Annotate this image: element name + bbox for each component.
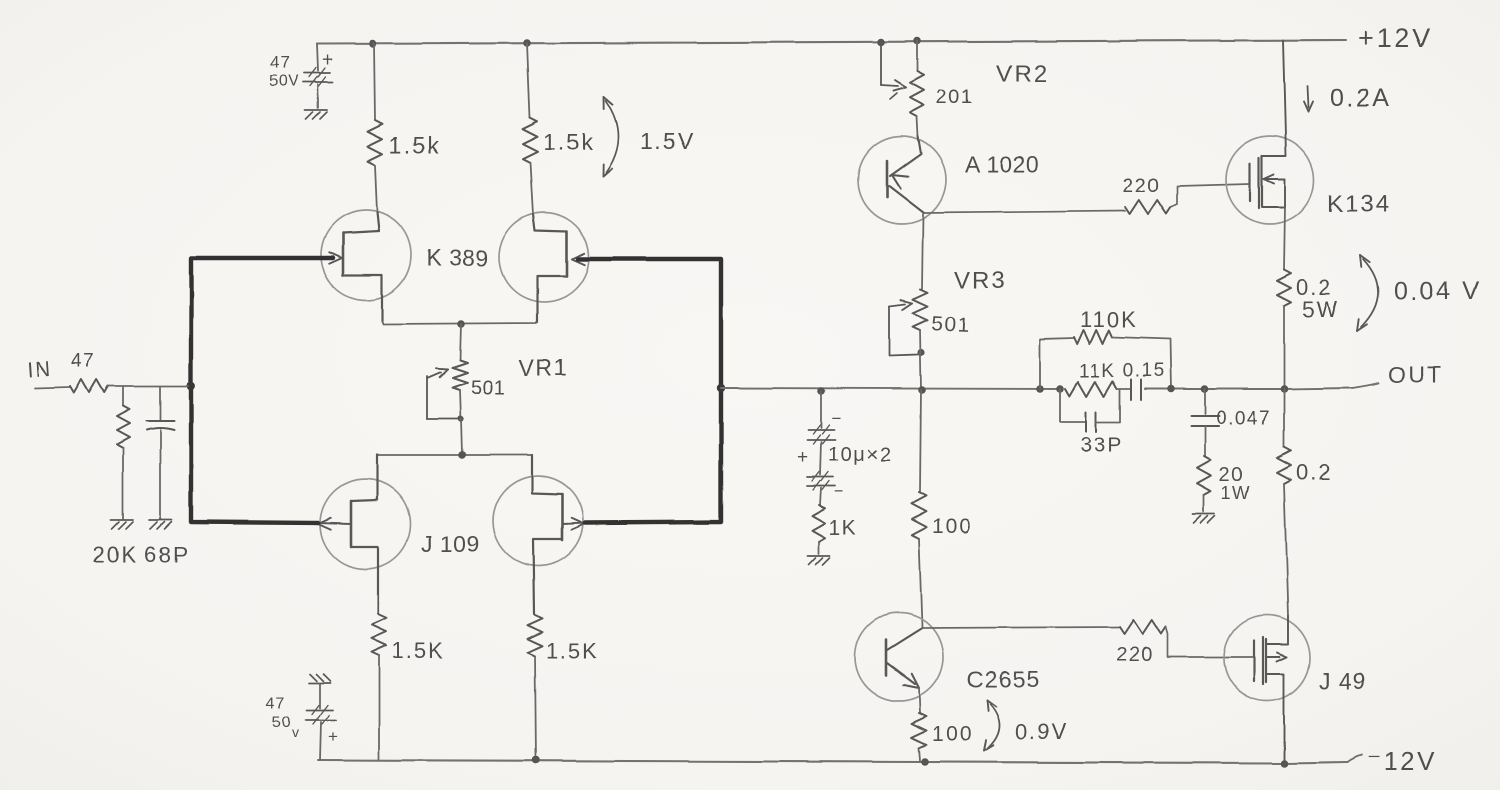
potentiometer VR1 wiper — [427, 368, 458, 419]
wire top-left cap stem — [317, 44, 318, 71]
label 110K — [1080, 307, 1138, 332]
junction dot (rail / right 1.5k) — [523, 39, 531, 47]
junction dot (110K left / line) — [1036, 385, 1044, 393]
svg-text:110K: 110K — [1080, 307, 1138, 332]
svg-text:100: 100 — [932, 723, 973, 746]
resistor 220 (K134 gate) — [1125, 200, 1171, 214]
resistor 110K (feedback bridge) — [1040, 330, 1171, 389]
label 1.5K (bottom left) — [392, 638, 445, 663]
wire thick left gate loop — [191, 258, 333, 523]
svg-text:VR1: VR1 — [519, 355, 568, 381]
transistor C2655 base bar — [885, 640, 888, 675]
svg-text:1.5K: 1.5K — [546, 638, 599, 663]
svg-text:A 1020: A 1020 — [965, 151, 1040, 177]
transistor K389 right JFET (circle) — [499, 212, 589, 302]
label VR3 — [954, 267, 1007, 294]
annotation arrow 0.2A — [1304, 86, 1313, 112]
transistor K134 (circle) — [1226, 136, 1314, 224]
transistor K134 channel bar — [1259, 156, 1262, 208]
junction dot (rail / left 1.5k) — [369, 40, 377, 48]
resistor 1.5k (K389 left drain) — [368, 44, 383, 212]
label + (top-left cap polarity) — [322, 50, 333, 71]
potentiometer VR2 wiper — [881, 42, 906, 99]
svg-text:−: − — [831, 409, 841, 428]
svg-text:47: 47 — [266, 695, 286, 712]
resistor 0.2 5W (K134 source) — [1277, 270, 1291, 389]
svg-text:47: 47 — [270, 53, 291, 72]
wire output line (right section) — [1145, 383, 1378, 389]
junction dot (33p left / line) — [1056, 385, 1064, 393]
wire +12V top rail — [317, 40, 1346, 44]
svg-text:+: + — [322, 50, 333, 71]
svg-text:11K 0.15: 11K 0.15 — [1079, 361, 1166, 382]
svg-text:⁻12V: ⁻12V — [1367, 746, 1437, 776]
transistor K134 body arrow — [1264, 175, 1285, 184]
transistor K389 left JFET (circle) — [321, 210, 411, 300]
svg-text:1K: 1K — [829, 517, 858, 540]
svg-text:47: 47 — [71, 351, 95, 372]
ground (1K) — [808, 556, 830, 565]
ground (zobel) — [1193, 514, 1215, 523]
label J109 — [421, 531, 480, 557]
svg-text:50V: 50V — [269, 73, 299, 90]
wire 11K to 0.15 — [1117, 388, 1130, 390]
svg-text:50: 50 — [272, 714, 292, 731]
transistor J109 right gate arrow — [562, 518, 585, 529]
label 501 (VR1) — [471, 377, 506, 399]
junction dot (VR1 wiper) — [458, 416, 464, 422]
label 201 (VR2) — [936, 86, 974, 108]
transistor J109 left gate arrow — [318, 518, 351, 529]
svg-text:33P: 33P — [1080, 434, 1123, 457]
resistor 0.2 (J49 source) — [1277, 389, 1291, 616]
svg-text:5W: 5W — [1302, 297, 1339, 322]
wire C2655 emitter to 100 — [919, 688, 920, 713]
wire A1020 collector to 220 — [924, 211, 1125, 213]
transistor J109 right JFET (circle) — [493, 476, 583, 566]
transistor K134 source lead — [1262, 179, 1285, 270]
transistor K134 drain lead — [1262, 40, 1286, 156]
svg-text:68P: 68P — [144, 542, 189, 567]
svg-text:1.5V: 1.5V — [640, 128, 695, 154]
transistor A1020 emitter — [890, 136, 921, 189]
svg-text:501: 501 — [931, 312, 972, 337]
annotation arc 0.9V — [984, 700, 1000, 751]
svg-text:220: 220 — [1116, 644, 1154, 666]
label 1.5k (right) — [543, 129, 594, 155]
wire VR1 top stem — [460, 324, 461, 360]
resistor 1.5K (J109 right drain) — [528, 615, 543, 760]
label 220 (bottom) — [1116, 644, 1154, 666]
svg-text:IN: IN — [27, 357, 54, 382]
svg-text:−: − — [834, 482, 844, 501]
label 501 (VR3) — [931, 312, 972, 337]
junction dot (zobel / line) — [1201, 385, 1209, 393]
label 10ux2 — [828, 444, 892, 466]
wire input lead — [35, 387, 70, 388]
label 1.5V — [640, 128, 695, 154]
svg-text:+: + — [328, 727, 338, 746]
capacitor 47/50V (top-left electrolytic) — [303, 68, 333, 108]
transistor K389 right JFET (symbol) — [533, 214, 567, 322]
wire VR1 bottom stem — [460, 390, 461, 419]
svg-text:1.5k: 1.5k — [389, 132, 440, 158]
wire J109 source bus — [377, 454, 532, 456]
transistor K389 right gate arrow — [572, 253, 585, 264]
transistor C2655 collector — [887, 628, 922, 650]
svg-text:v: v — [292, 724, 299, 740]
svg-text:220: 220 — [1122, 175, 1160, 197]
potentiometer VR2 201 (element) — [910, 41, 924, 136]
resistor 11K (feedback, in line) — [1065, 382, 1117, 397]
label IN — [27, 357, 54, 382]
label 0.047 — [1216, 408, 1271, 429]
svg-text:J 49: J 49 — [1319, 668, 1366, 694]
transistor J109 right JFET (symbol) — [532, 455, 562, 614]
capacitor 10ux2 (feedback, series pair) — [807, 391, 835, 505]
label A1020 — [965, 151, 1040, 177]
label 1K — [829, 517, 858, 540]
capacitor 0.047 (zobel) — [1191, 389, 1219, 456]
junction dot (input node) — [187, 382, 196, 391]
capacitor 47/50v (bottom-left electrolytic) — [306, 684, 336, 760]
wire A1020 collector to VR3 — [922, 214, 923, 289]
transistor J49 drain lead — [1266, 674, 1284, 763]
annotation arc 0.04V — [1357, 255, 1378, 331]
label 33P — [1080, 434, 1123, 457]
resistor 100 (C2655 emitter) — [912, 713, 927, 761]
transistor J109 left JFET (circle) — [320, 479, 410, 569]
label 47 (input) — [71, 351, 95, 372]
svg-text:+: + — [797, 447, 808, 468]
resistor 1K (feedback shunt) — [813, 505, 826, 554]
resistor 1.5k (K389 right drain) — [523, 43, 538, 214]
transistor K389 left JFET (symbol) — [343, 212, 382, 321]
wire C2655 collector to 220 — [922, 627, 1120, 628]
capacitor 33P (across 11K) — [1060, 389, 1120, 432]
wire input to gate loop — [108, 385, 188, 387]
label VR2 — [996, 61, 1049, 88]
label C2655 — [967, 666, 1040, 692]
label 100 (lower) — [932, 723, 973, 746]
wire VR3 to output line — [920, 330, 921, 389]
resistor 220 (J49 gate) — [1120, 620, 1166, 634]
label K389 — [426, 245, 489, 271]
junction dot (110K right / line) — [1167, 385, 1175, 393]
label minus (lower 10u) — [834, 482, 844, 501]
svg-text:OUT: OUT — [1388, 362, 1444, 388]
transistor A1020 (circle) — [858, 136, 946, 224]
resistor 20K (input shunt) — [117, 386, 130, 519]
svg-text:1.5K: 1.5K — [392, 638, 445, 663]
junction dot (feedback node on loop) — [717, 384, 725, 392]
transistor K134 gate bar — [1249, 164, 1251, 201]
svg-text:K 389: K 389 — [426, 245, 489, 271]
svg-text:0.2: 0.2 — [1296, 460, 1333, 485]
ground (20K) — [111, 520, 133, 529]
label 0.2 (lower) — [1296, 460, 1333, 485]
junction dot (J109 sources / VR1 bottom) — [458, 451, 466, 459]
resistor 100 (C2655 collector) — [912, 492, 927, 627]
junction dot (J49 / -12V rail) — [1280, 759, 1288, 767]
resistor 47 (input series) — [70, 380, 108, 393]
svg-text:+12V: +12V — [1358, 23, 1434, 53]
transistor J49 channel bar — [1263, 637, 1266, 684]
net label +12V — [1358, 23, 1434, 53]
potentiometer VR3 501 (element) — [913, 289, 928, 330]
transistor J49 (circle) — [1224, 615, 1310, 701]
ground (bottom-left cap, upward) — [309, 674, 331, 683]
wire VR1 to J109 bus — [461, 419, 462, 454]
svg-text:20K: 20K — [93, 542, 138, 567]
label 20K — [93, 542, 138, 567]
svg-text:K134: K134 — [1327, 191, 1391, 218]
junction dot (right 1.5K / -12V rail) — [532, 756, 540, 764]
wire thick right gate loop (feedback) — [578, 259, 721, 523]
svg-text:1W: 1W — [1221, 483, 1251, 503]
junction dot (0.2 resistors / line) — [1280, 385, 1288, 393]
label J49 — [1319, 668, 1366, 694]
label 20 1W — [1219, 464, 1251, 503]
label 0.9V — [1015, 719, 1068, 744]
svg-text:10μ×2: 10μ×2 — [828, 444, 892, 466]
transistor J49 gate bar — [1253, 640, 1255, 681]
potentiometer VR1 501 (element) — [453, 360, 468, 390]
svg-text:VR2: VR2 — [996, 61, 1049, 88]
resistor 20 1W (zobel) — [1197, 456, 1211, 512]
wire line to 100 — [920, 390, 921, 492]
svg-text:0.047: 0.047 — [1216, 408, 1271, 429]
potentiometer VR3 wiper — [889, 300, 918, 356]
transistor J49 source lead — [1266, 616, 1288, 644]
svg-text:0.9V: 0.9V — [1015, 719, 1068, 744]
ground (top-left cap) — [305, 110, 327, 119]
label + (bottom-left cap) — [328, 727, 338, 746]
label + (10u) — [797, 447, 808, 468]
label minus (upper 10u) — [831, 409, 841, 428]
transistor J49 body arrow — [1266, 653, 1287, 662]
wire 220 to J49 gate — [1166, 627, 1253, 657]
label 220 (top) — [1122, 175, 1160, 197]
junction dot (VR3 / line) — [918, 386, 926, 394]
label VR1 — [519, 355, 568, 381]
transistor K389 left gate arrow — [329, 252, 342, 263]
capacitor 0.15 (series, in line) — [1131, 380, 1141, 400]
wire -12V bottom rail — [318, 755, 1362, 763]
label 0.04V — [1394, 277, 1481, 305]
svg-text:C2655: C2655 — [967, 666, 1040, 692]
svg-text:0.04 V: 0.04 V — [1394, 277, 1481, 305]
transistor A1020 base bar — [886, 161, 889, 197]
net label -12V — [1367, 746, 1437, 776]
label 1.5k (left) — [389, 132, 440, 158]
annotation arc 1.5V — [603, 97, 619, 177]
svg-text:100: 100 — [932, 515, 973, 538]
svg-text:501: 501 — [471, 377, 506, 399]
net label OUT — [1388, 362, 1444, 388]
svg-text:J 109: J 109 — [421, 531, 480, 557]
wire 220 to K134 gate — [1171, 184, 1250, 207]
transistor C2655 emitter — [887, 663, 919, 688]
label 0.2 5W — [1296, 275, 1339, 322]
svg-text:201: 201 — [936, 86, 974, 108]
label 1.5K (bottom right) — [546, 638, 599, 663]
junction dot (rail / VR2 wiper) — [877, 38, 885, 46]
ground (68P) — [149, 520, 171, 529]
svg-text:VR3: VR3 — [954, 267, 1007, 294]
wire K389 source bus — [382, 321, 536, 324]
label 68P — [144, 542, 189, 567]
junction dot (rail / VR2 top) — [913, 37, 921, 45]
junction dot (100 / -12V rail) — [921, 758, 929, 766]
label 47 50v (bottom-left cap) — [266, 695, 299, 740]
capacitor 68P (input shunt) — [146, 386, 174, 519]
label 47 50V (top-left cap value) — [269, 53, 299, 90]
resistor 1.5K (J109 left drain) — [372, 615, 387, 760]
junction dot (VR3 wiper) — [917, 349, 924, 356]
transistor J109 left JFET (symbol) — [351, 455, 378, 614]
svg-text:1.5k: 1.5k — [543, 129, 594, 155]
junction dot (10u branch / line) — [817, 387, 825, 395]
svg-text:0.2A: 0.2A — [1330, 84, 1391, 112]
junction dot (K389 sources / VR1 top) — [457, 320, 465, 328]
label 11K 0.15 — [1079, 361, 1166, 382]
label K134 — [1327, 191, 1391, 218]
wire output line (feedback node to 11K) — [721, 388, 1060, 389]
transistor C2655 (circle) — [855, 613, 943, 701]
label 100 (upper) — [932, 515, 973, 538]
label 0.2A — [1330, 84, 1391, 112]
transistor A1020 collector — [889, 186, 924, 213]
